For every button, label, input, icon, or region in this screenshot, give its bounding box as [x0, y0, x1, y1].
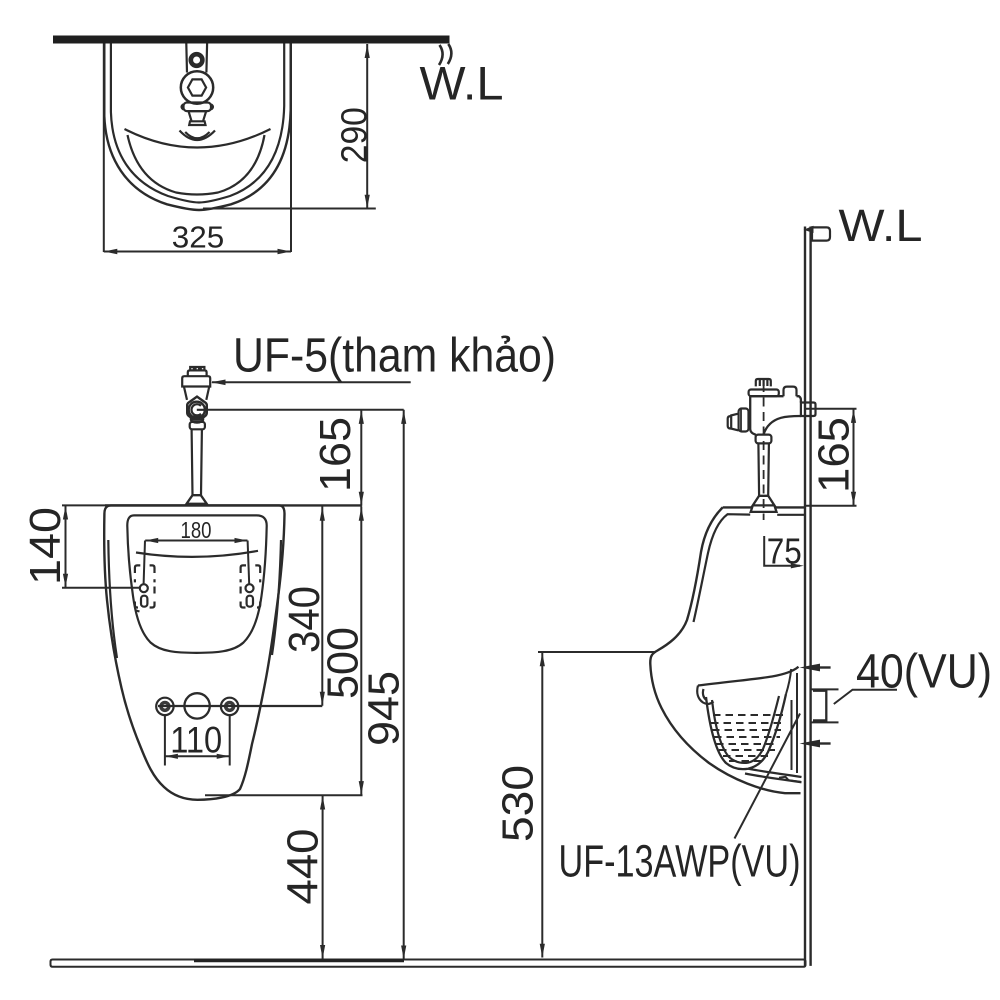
- wall break marks: [439, 44, 451, 65]
- extension line urinal top to 165-500: [105, 504, 362, 506]
- dimension line 325: [104, 251, 291, 253]
- urinal front inner rim side lines: [108, 540, 281, 658]
- mounting hole right circle: [246, 584, 254, 592]
- arrowheads 325: [104, 249, 291, 254]
- mounting hole left dashed bracket: [135, 565, 155, 611]
- side valve handle mount: [739, 409, 749, 432]
- arrowheads 165 right: [851, 409, 856, 505]
- side valve top plate: [749, 390, 779, 397]
- flush valve inner circle: [191, 404, 204, 415]
- svg-text:W.L: W.L: [839, 200, 923, 251]
- arrowheads 500: [359, 507, 364, 794]
- drain circle middle: [184, 693, 209, 718]
- dimension line 140: [65, 505, 67, 587]
- svg-text:UF-5(tham khảo): UF-5(tham khảo): [233, 330, 556, 383]
- urinal top view inner rim line: [111, 44, 284, 203]
- arrowheads 340: [320, 507, 325, 705]
- urinal side basin inner: [712, 696, 779, 763]
- leader line UF-5: [212, 381, 411, 383]
- flush valve lower ring (front view): [191, 416, 203, 423]
- side valve cap: [756, 379, 771, 386]
- mounting hole left circle: [140, 584, 148, 592]
- urinal top view bowl inner lip: [128, 135, 265, 195]
- urinal side bowl shelf slope: [698, 667, 799, 686]
- svg-text:UF-13AWP(VU): UF-13AWP(VU): [559, 836, 801, 887]
- flush valve UF-5 cap (front view): [188, 367, 207, 376]
- arrowheads 110: [165, 754, 230, 759]
- bolt circle right: [221, 698, 238, 715]
- svg-text:75: 75: [767, 531, 802, 572]
- svg-text:110: 110: [170, 719, 222, 760]
- valve flange side tabs: [182, 104, 213, 109]
- extension lines for 325: [104, 44, 291, 253]
- svg-text:140: 140: [21, 507, 70, 585]
- arrowheads 165 front: [359, 410, 364, 505]
- urinal front bowl opening: [127, 515, 266, 653]
- urinal top view outer outline: [104, 44, 290, 211]
- side pipe center dashed line: [763, 383, 765, 520]
- arrowheads 140: [63, 506, 68, 587]
- extension line from valve circle: [205, 409, 404, 411]
- dimension line 110: [165, 755, 230, 757]
- arrowhead 75: [791, 563, 804, 568]
- dimension 75 bracket: [764, 536, 800, 566]
- dimension line 440: [322, 795, 324, 959]
- dimension line 165 (front): [360, 410, 362, 506]
- arrowheads 180: [145, 538, 247, 543]
- side flush pipe: [758, 444, 769, 496]
- extension line 530 top: [538, 651, 656, 653]
- W.L marker tab: [812, 227, 830, 240]
- valve cone (top view): [189, 111, 207, 125]
- extension line urinal bottom: [205, 794, 363, 796]
- urinal side inner ceiling line: [694, 514, 806, 622]
- flush valve collar (front view): [182, 376, 210, 386]
- leader UF-13AWP: [735, 714, 801, 839]
- side spreader: [751, 496, 777, 512]
- floor slab: [51, 960, 806, 967]
- dimension line 945: [403, 410, 405, 960]
- svg-text:440: 440: [279, 829, 328, 905]
- line through circles (340 extension): [158, 705, 322, 707]
- svg-text:180: 180: [181, 517, 212, 543]
- valve flange (top view): [184, 103, 212, 112]
- urinal front bowl shelf arc: [136, 551, 258, 557]
- flush valve neck (front view): [184, 386, 210, 400]
- side valve body: [750, 396, 801, 435]
- urinal top view bowl shelf arc: [125, 129, 271, 148]
- drain pipe stub rectangle: [813, 691, 826, 721]
- svg-text:165: 165: [311, 417, 360, 492]
- drain pipe flange lines: [812, 689, 839, 722]
- drain outlet arcs (top view): [180, 131, 216, 141]
- valve hex nut (top view): [188, 79, 206, 95]
- svg-text:340: 340: [280, 586, 329, 653]
- mounting hole left: drop line from 180: [144, 541, 145, 585]
- valve body circle (top view): [181, 71, 213, 103]
- dimension line 340: [321, 506, 323, 705]
- dimension line 500: [360, 506, 362, 795]
- side valve wall connector: [801, 403, 816, 417]
- mounting hole left slot: [141, 596, 147, 607]
- side valve lower collar: [756, 435, 772, 444]
- outlet spud step: [779, 777, 801, 782]
- bolt circle left: [156, 698, 173, 715]
- water dashed lines: [711, 715, 783, 761]
- extension lines 165 right: [806, 409, 857, 506]
- arrowheads 440: [320, 796, 325, 959]
- svg-text:W.L: W.L: [420, 57, 504, 110]
- section marker arrow upper: [800, 664, 831, 672]
- flush valve hex body (front view): [187, 397, 207, 420]
- mounting hole right slot: [247, 596, 253, 607]
- urinal side rim channel left: [697, 686, 713, 704]
- leader 40(VU): [834, 690, 897, 704]
- flush valve circle (front view): [189, 402, 205, 418]
- leader arrowhead UF-5: [211, 380, 226, 386]
- valve strap (top view): [186, 44, 207, 73]
- wall line (top view, thick): [53, 36, 450, 44]
- spreader (front view): [187, 495, 207, 504]
- W.L marker arrow: [804, 226, 814, 233]
- svg-text:325: 325: [172, 219, 225, 254]
- flush valve lower collar (front view): [190, 422, 205, 429]
- side valve inlet hump: [784, 387, 797, 397]
- mounting hole right dashed bracket: [241, 565, 261, 607]
- wall lines (side view): [805, 227, 811, 966]
- extension line 140 bottom (to hole): [62, 587, 141, 589]
- valve screw (top view, dark circle): [191, 54, 203, 66]
- extension line bottom of 290: [203, 208, 376, 210]
- urinal side outer profile: [650, 507, 805, 793]
- back wall channel verticals: [786, 669, 797, 773]
- arrowheads 945: [401, 410, 406, 959]
- extension line 140 top: [62, 504, 109, 506]
- arrowheads 290: [365, 45, 370, 209]
- flush pipe (front view): [192, 429, 202, 495]
- dimension line 165 right: [853, 409, 855, 506]
- svg-text:290: 290: [333, 107, 374, 163]
- dimension line 180: [145, 540, 247, 542]
- arrowheads 530: [540, 653, 545, 958]
- urinal front outer outline: [104, 505, 284, 799]
- extension lines 110: [165, 716, 230, 766]
- dimension line 530: [541, 652, 543, 958]
- svg-text:530: 530: [494, 765, 543, 842]
- outlet channel lines: [745, 769, 802, 783]
- side valve handle: [728, 414, 739, 431]
- floor darker segment: [194, 959, 404, 962]
- section marker arrow lower: [800, 740, 831, 748]
- svg-text:165: 165: [810, 417, 859, 493]
- urinal side basin outer: [706, 694, 786, 769]
- dimension line 290: [366, 44, 368, 209]
- mounting hole right: drop line from 180: [248, 541, 250, 585]
